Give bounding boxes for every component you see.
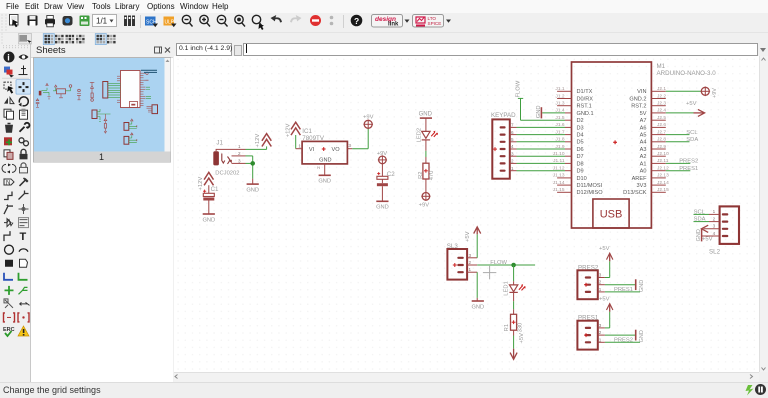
wire PRES2.2 to ground	[605, 284, 636, 286]
SL3 origin cross	[453, 263, 457, 267]
junction (J1 ground node)	[250, 161, 255, 166]
supply +5V arrow above PRES2	[599, 246, 613, 261]
M1 pin J1.14 (D11/MOSI)	[553, 180, 603, 189]
J1 pin 2	[232, 151, 246, 156]
ground symbol below C2	[376, 186, 389, 210]
sheet thumbnail mini schematic	[36, 70, 158, 144]
M1 origin cross	[613, 140, 617, 144]
ground symbol below IC1	[318, 175, 331, 184]
connector PRES1 body	[577, 315, 598, 350]
supply +9V circle above C2	[377, 151, 388, 165]
M1 pin J1.15 (D12/MISO)	[553, 187, 604, 196]
KEYPAD pin 5 pad+stub	[500, 137, 517, 143]
module M1 USB box	[593, 199, 629, 228]
SL3 pin 3 pad	[457, 253, 477, 259]
supply +5V arrow at 5V pin	[666, 101, 705, 116]
M1 pin J2.5 (A7)	[640, 115, 667, 124]
supply +5V arrow at SL2.3 (left)	[702, 225, 720, 242]
wire KEYPAD pin 6 to M1 D4	[517, 134, 566, 136]
wire FLOW junction down to LED1	[513, 265, 515, 285]
M1 pin J2.7 (A5)	[640, 129, 667, 138]
LED LED1	[504, 281, 526, 296]
wire/net FLOW to M1 D2	[516, 80, 565, 120]
IC1 pin 3 (VO)	[347, 143, 352, 149]
J1 pin 1	[216, 144, 245, 151]
IC1 pin 2 (GND)	[316, 164, 325, 175]
PRES2 pin 3 pad	[585, 273, 605, 279]
M1 pin J1.12 (D9)	[553, 166, 584, 175]
resistor R2 470	[418, 163, 435, 180]
wire J1.2/J1.3 to ground	[246, 156, 253, 179]
supply +5V arrow below R1 (down)	[510, 333, 525, 359]
ground symbol right of PRES2 (rotated)	[636, 279, 645, 292]
capacitor C1 (polarized)	[203, 185, 219, 200]
M1 pin J1.2 (D0/RX)	[555, 93, 593, 102]
SL2 pin 3 pad	[713, 224, 729, 230]
capacitor C2 (polarized)	[377, 164, 395, 186]
ground symbol below SL3	[471, 298, 484, 310]
ground symbol at M1 GND.1	[536, 105, 565, 118]
wire PRES2.3 to +5V	[605, 261, 610, 277]
M1 pin J1.9 (D6)	[555, 144, 583, 153]
resistor R1 330	[504, 314, 523, 332]
M1 pin J2.8 (A4)	[640, 137, 667, 146]
M1 pin J2.6 (A6)	[640, 122, 667, 131]
PRES2 origin cross	[584, 283, 588, 287]
wire SL3.1 to ground	[476, 272, 478, 298]
junction FLOW node	[511, 263, 516, 268]
supply +9V circle (IC1 output)	[363, 114, 374, 129]
net FLOW wire from SL3.2	[477, 260, 535, 266]
M1 pin J1.1 (D1/TX)	[555, 86, 592, 95]
M1 pin J2.11 (A1)	[640, 158, 669, 167]
supply +9V circle below R2	[419, 179, 431, 208]
PRES2 pin 1 pad	[585, 287, 605, 293]
M1 pin J1.8 (D5)	[555, 137, 583, 146]
IC1 pin 1 (VI)	[296, 143, 302, 148]
module M1 name/value labels	[657, 63, 717, 77]
KEYPAD pin 7 pad+stub	[500, 123, 517, 129]
net PRES2 wire from PRES1.1	[605, 338, 640, 344]
M1 pin J2.15 (D13/SCK)	[623, 187, 669, 196]
SL2 pin 1 pad	[713, 209, 729, 215]
KEYPAD pin 6 pad+stub	[500, 130, 517, 136]
PRES1 origin cross	[584, 333, 588, 337]
PRES1 pin 1 pad	[585, 337, 605, 343]
ground symbol at SL2.4 (rotated)	[696, 229, 720, 241]
LED LED2	[416, 128, 438, 143]
PRES1 pin 2 pad	[585, 330, 605, 336]
voltage regulator IC1 7809TV	[302, 128, 347, 164]
wire KEYPAD pin 4 to M1 D6	[517, 148, 566, 150]
M1 pin J2.13 (AREF)	[632, 173, 669, 182]
SL3 pin 2 pad	[457, 260, 477, 266]
M1 pin J1.5 (D2)	[555, 115, 583, 124]
wire LED1 to R1	[513, 292, 515, 314]
M1 pin J2.14 (3V3)	[637, 180, 670, 189]
wire R1 to +5V	[513, 330, 515, 349]
KEYPAD pin 2 pad+stub	[500, 159, 517, 165]
KEYPAD pin 1 pad+stub	[500, 166, 517, 172]
M1 pin J2.9 (A3)	[640, 144, 667, 153]
KEYPAD pin 4 pad+stub	[500, 144, 517, 150]
wire KEYPAD pin 3 to M1 D7	[517, 155, 566, 157]
net SCL wire to SL2.1	[694, 209, 720, 215]
M1 pin J2.2 (GND.2)	[629, 93, 666, 102]
supply +5V arrow above PRES1	[599, 297, 613, 312]
wire KEYPAD pin 1 to M1 D9	[517, 170, 566, 172]
net SDA wire to SL2.2	[694, 217, 720, 223]
wire KEYPAD pin 7 to M1 D3	[517, 126, 566, 128]
supply +5V arrow above SL3	[465, 227, 481, 242]
supply +12V arrow above C1	[198, 172, 213, 190]
net PRES2 from A1	[666, 159, 698, 165]
supply +12V arrow (J1)	[255, 134, 272, 148]
M1 pin J2.1 (VIN)	[637, 86, 666, 95]
net SCL from A5	[666, 130, 699, 136]
net PRES1 wire from PRES2.1	[605, 287, 640, 293]
net SDA from A4	[666, 137, 699, 143]
wire PRES1.2 to ground	[605, 334, 636, 336]
ground symbol below J1	[246, 179, 259, 194]
connector PRES2 body	[577, 264, 598, 299]
supply +9V circle at VIN	[666, 87, 718, 99]
module M1 ARDUINO-NANO-3.0 body	[572, 62, 652, 228]
M1 pin J2.10 (A2)	[640, 151, 669, 160]
wire LED2 to R2	[425, 140, 427, 163]
M1 pin J2.4 (5V)	[640, 108, 667, 117]
wire KEYPAD pin 2 to M1 D8	[517, 162, 566, 164]
M1 pin J1.4 (GND.1)	[555, 108, 593, 117]
SL3 pin 1 pad	[457, 267, 477, 273]
M1 pin J2.12 (A0)	[640, 166, 669, 175]
M1 pin J1.13 (D10)	[553, 173, 587, 182]
M1 pin J1.6 (D3)	[555, 122, 583, 131]
wire PRES1.3 to +5V	[605, 312, 610, 328]
connector SL2 body	[709, 206, 739, 255]
connector KEYPAD (7-pin) body	[491, 112, 516, 179]
wire KEYPAD pin 5 to M1 D5	[517, 141, 566, 143]
wire SL3.3 to +5V	[476, 234, 478, 257]
M1 pin J1.11 (D8)	[553, 158, 584, 167]
mouse crosshair cursor	[483, 266, 496, 279]
connector J1 DCJ0202	[213, 140, 239, 177]
ground symbol above LED2 (inverted)	[419, 112, 433, 132]
M1 pin J1.3 (RST.1)	[555, 101, 591, 110]
ground symbol right of PRES1 (rotated)	[636, 330, 645, 343]
ground symbol below C1	[202, 201, 215, 224]
wire IC1 VO to +9V	[352, 128, 368, 148]
connector SL3 body	[447, 243, 467, 280]
J1 pin 3	[232, 158, 246, 163]
PRES2 pin 2 pad	[585, 280, 605, 286]
PRES1 pin 3 pad	[585, 323, 605, 329]
M1 pin J1.7 (D4)	[555, 129, 583, 138]
wire +12V to IC1 VI	[295, 135, 297, 149]
M1 pin J2.3 (RST.2)	[631, 101, 666, 110]
KEYPAD origin cross	[493, 147, 497, 151]
KEYPAD pin 3 pad+stub	[500, 151, 517, 157]
wire J1.1 to +12V	[246, 146, 267, 149]
SL2 pin 2 pad	[713, 216, 729, 222]
M1 pin J1.10 (D7)	[553, 151, 584, 160]
SL2 pin 4 pad	[713, 231, 729, 237]
net PRES1 from A0	[666, 166, 698, 172]
supply +12V arrow at IC1 input	[285, 122, 300, 137]
